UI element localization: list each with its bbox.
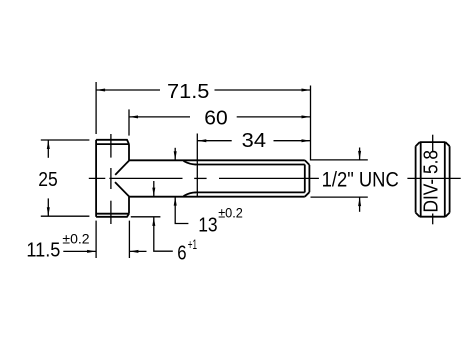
svg-text:25: 25 [38, 169, 58, 191]
svg-text:6: 6 [177, 242, 186, 264]
svg-text:71.5: 71.5 [167, 81, 209, 103]
svg-text:±0.2: ±0.2 [218, 205, 243, 221]
svg-text:1/2" UNC: 1/2" UNC [322, 168, 399, 191]
svg-text:11.5: 11.5 [26, 239, 60, 261]
svg-text:34: 34 [242, 130, 266, 152]
svg-text:DIV- 5.8: DIV- 5.8 [421, 150, 443, 213]
svg-text:13: 13 [198, 214, 217, 236]
svg-text:±0.2: ±0.2 [62, 230, 89, 246]
svg-text:+1: +1 [188, 236, 197, 252]
svg-text:60: 60 [204, 107, 227, 129]
